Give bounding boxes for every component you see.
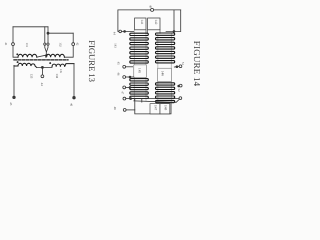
- svg-text:134: 134: [55, 73, 59, 78]
- core stub lines: [146, 30, 160, 34]
- svg-text:41: 41: [4, 42, 8, 46]
- wire left lead down: [13, 65, 15, 96]
- svg-text:133: 133: [29, 74, 33, 79]
- terminal left row4: [123, 97, 126, 100]
- terminal left row3: [123, 86, 126, 89]
- terminal 41: [12, 43, 15, 46]
- wire left frame vertical: [117, 10, 119, 32]
- junction dot left top: [124, 31, 126, 33]
- terminal right row3: [179, 97, 182, 100]
- junction dot right row2: [178, 85, 180, 87]
- wire A bottom stub: [141, 98, 143, 102]
- junction dot right row1: [176, 66, 178, 68]
- core (dashed): [14, 59, 68, 61]
- polarity dot winding 133: [17, 61, 19, 63]
- junction dot row2: [129, 76, 131, 78]
- wire bottom rail: [135, 99, 171, 114]
- terminal right row2: [179, 84, 182, 87]
- wire right corner vertical: [180, 10, 182, 32]
- core box 141: [135, 18, 146, 30]
- node bubble A: [44, 43, 46, 45]
- svg-text:44: 44: [40, 83, 44, 87]
- core vertical A right: [145, 30, 147, 101]
- core vertical A: [133, 30, 135, 101]
- svg-text:49: 49: [148, 5, 152, 9]
- wire left vertical to winding 131: [13, 27, 18, 57]
- wire bottom rail 3: [37, 66, 52, 68]
- node bubble B: [47, 43, 49, 45]
- wire to winding A top: [118, 30, 134, 32]
- junction rail2: [47, 32, 49, 34]
- wire top rail 2: [48, 32, 73, 34]
- wire right lead down: [73, 64, 75, 97]
- core box 142: [148, 18, 160, 30]
- inductor winding 134: [52, 64, 74, 67]
- svg-text:51: 51: [181, 62, 185, 66]
- polarity dot winding 134: [49, 62, 51, 64]
- wire right frame vertical: [173, 10, 175, 32]
- svg-text:145: 145: [138, 68, 142, 73]
- inductor winding 133: [14, 63, 37, 67]
- wire top-right link: [166, 30, 181, 32]
- svg-text:FIGURE 14: FIGURE 14: [192, 41, 202, 87]
- label window 146 on column B: [158, 68, 172, 81]
- wire lead row2: [126, 76, 134, 78]
- terminal 45 (filled): [13, 96, 16, 99]
- svg-text:48: 48: [113, 107, 117, 111]
- core vertical B right: [170, 33, 172, 102]
- junction tap dot: [41, 66, 43, 68]
- wire lead row3: [126, 86, 133, 88]
- terminal 46 (filled): [73, 96, 76, 99]
- wire inner vertical A: [45, 27, 47, 56]
- svg-text:FIGURE 13: FIGURE 13: [87, 40, 97, 82]
- svg-text:146: 146: [161, 71, 165, 76]
- junction dot row3: [129, 87, 131, 89]
- winding column B turns: [156, 33, 175, 103]
- junction dot top windings: [45, 55, 47, 57]
- junction dot right link: [173, 31, 175, 33]
- terminal 44: [41, 75, 44, 78]
- inductor winding 131: [18, 54, 37, 57]
- svg-text:47: 47: [121, 91, 125, 95]
- wire bottom lead y110: [126, 109, 135, 111]
- wire corner rail1-rail2: [47, 27, 49, 33]
- wire lead row4: [126, 98, 179, 100]
- svg-text:141: 141: [140, 19, 144, 24]
- terminal on A top wire: [119, 30, 122, 33]
- polarity dot winding 131: [16, 53, 18, 55]
- terminal bottom-left 2: [123, 109, 126, 112]
- svg-text:148: 148: [163, 105, 167, 111]
- svg-text:131: 131: [25, 43, 29, 48]
- svg-text:52: 52: [177, 89, 181, 93]
- wire top rail: [118, 9, 181, 11]
- terminal 49 top (on rail): [151, 8, 154, 11]
- terminal 42: [72, 43, 75, 46]
- winding column A turns: [130, 33, 149, 98]
- svg-text:42: 42: [75, 42, 79, 46]
- svg-text:142: 142: [154, 19, 158, 24]
- label window 145 on column A: [134, 65, 147, 78]
- wire right vertical to winding 132: [65, 33, 74, 57]
- terminal 43 left row1: [123, 65, 126, 68]
- svg-text:132: 132: [59, 42, 63, 47]
- svg-text:45: 45: [117, 62, 121, 66]
- svg-text:143: 143: [114, 43, 118, 48]
- wire center tap down: [41, 67, 43, 75]
- svg-text:44: 44: [112, 32, 116, 36]
- terminal right row1: [179, 65, 182, 68]
- core vertical B: [157, 33, 159, 102]
- terminal left row2: [123, 76, 126, 79]
- wire bottom connector y102: [134, 99, 180, 102]
- right lead row1: [174, 65, 179, 68]
- bottom label box 147: [150, 104, 160, 114]
- junction dot row4: [130, 98, 132, 100]
- wire top rail 1: [13, 26, 48, 28]
- wire winding junction: [37, 55, 45, 57]
- wire lead row1: [126, 66, 133, 68]
- wire inner vertical B: [47, 33, 49, 52]
- svg-text:147: 147: [154, 105, 158, 111]
- bottom label box 148: [160, 104, 170, 114]
- svg-text:46: 46: [117, 72, 121, 76]
- inductor winding 132: [46, 54, 64, 57]
